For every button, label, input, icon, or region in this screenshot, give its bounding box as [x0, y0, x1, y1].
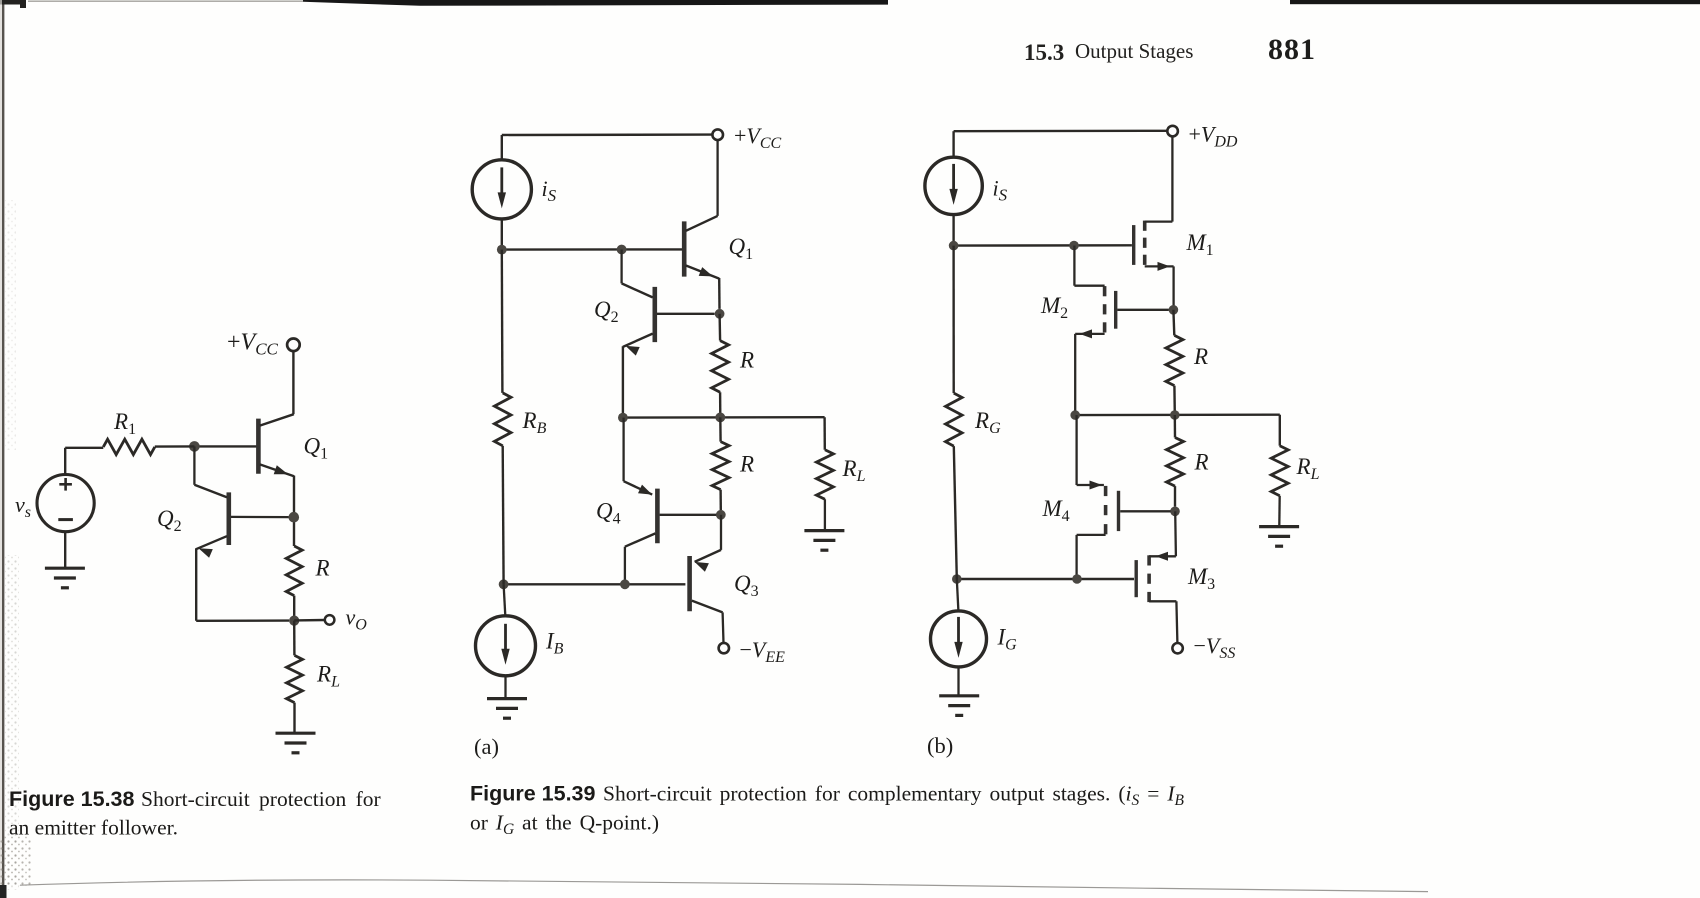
wire top rail (fig a): [502, 135, 713, 160]
ground below IB (fig a): [487, 699, 527, 719]
label iS (fig b): [993, 176, 1008, 205]
wire Q1 emitter to node (fig a): [718, 278, 721, 309]
node dot row2 right (fig b): [1170, 410, 1180, 420]
node dot row2 left (fig a): [618, 413, 628, 423]
wire node row 3 (fig b): [957, 578, 1134, 580]
resistor RL (fig b): [1271, 415, 1288, 526]
wire node row 3 (fig a): [504, 583, 686, 585]
wire node row 2 (fig a): [623, 416, 825, 419]
wire node row 2 (fig b): [1075, 414, 1280, 417]
scan artifact: left page-edge dark line: [2, 0, 4, 898]
wire vs to ground (fig 15.38): [64, 532, 66, 568]
current source IB (fig a): [476, 584, 536, 698]
node dot row2 left (fig b): [1070, 410, 1080, 420]
resistor RG (fig b): [946, 246, 963, 579]
label vs (fig 15.38): [15, 492, 31, 521]
wire to vO terminal (fig 15.38): [294, 619, 325, 622]
transistor Q1 (fig 15.38): [258, 414, 294, 476]
label R upper (fig b): [1193, 344, 1208, 369]
ground below RL (fig 15.38): [276, 733, 316, 753]
label Q4 (fig a): [596, 499, 621, 528]
transistor Q1 (fig a): [684, 140, 719, 279]
transistor Q3 (fig a): [690, 515, 724, 643]
svg-text:(b): (b): [927, 733, 953, 758]
label Q3 (fig a): [734, 571, 759, 600]
scan artifact: top black bar right segment: [1290, 0, 1700, 4]
node dot row3 left (fig a): [499, 579, 509, 589]
caption Figure 15.39: [470, 782, 1184, 839]
label R upper (fig a): [739, 348, 754, 373]
label RL (fig 15.38): [316, 662, 340, 691]
label R lower (fig b): [1194, 450, 1209, 475]
node VCC terminal (fig 15.38): [287, 339, 300, 352]
resistor R1 (fig 15.38): [65, 439, 194, 454]
wire iS to node row1 (fig b): [952, 215, 954, 246]
node dot row2 right (fig a): [715, 413, 725, 423]
label Q2 (fig a): [594, 297, 619, 326]
wire top rail (fig b): [954, 131, 1168, 157]
svg-text:R: R: [315, 556, 330, 581]
node -VEE terminal (fig a): [719, 643, 729, 653]
wire Q2 emitter down to row2 (fig a): [622, 346, 624, 417]
ground below vs (fig 15.38): [45, 568, 85, 588]
node dot M2 gate (fig b): [1169, 305, 1179, 315]
label Q1 (fig a): [729, 234, 754, 263]
node base junction dot (fig 15.38): [189, 441, 200, 452]
source vs (fig 15.38): [37, 448, 94, 532]
svg-text:15.3: 15.3: [1024, 40, 1064, 65]
transistor M4 (fig b): [1077, 415, 1171, 579]
label +VCC (fig 15.38): [227, 330, 279, 359]
label M4 (fig b): [1042, 496, 1070, 525]
node dot M2 drain row1 (fig b): [1069, 241, 1079, 251]
label -VSS (fig b): [1194, 633, 1236, 662]
svg-text:(a): (a): [474, 734, 499, 759]
node Q2 base junction dot (fig 15.38): [289, 512, 300, 523]
caption Figure 15.38: [9, 787, 381, 840]
current source IG (fig b): [931, 579, 987, 695]
current source iS (fig a): [472, 160, 531, 219]
svg-text:an emitter follower.: an emitter follower.: [9, 816, 178, 840]
label +VCC (fig a): [734, 123, 782, 152]
node -VSS terminal (fig b): [1172, 643, 1182, 653]
svg-text:Short-circuit protection for c: Short-circuit protection for complementa…: [603, 782, 1184, 810]
node dot Q2 base (fig a): [715, 309, 725, 319]
ground below RL (fig b): [1259, 527, 1299, 547]
wire Q2 emitter down and across to vO node (fig 15.38): [196, 548, 289, 620]
svg-text:R: R: [739, 452, 754, 477]
wire Q1 emitter down to node (fig 15.38): [293, 476, 295, 546]
svg-text:Figure 15.39: Figure 15.39: [470, 782, 596, 806]
label RG (fig b): [974, 408, 1001, 437]
transistor M1 (fig b): [1134, 137, 1174, 310]
label IB (fig a): [545, 629, 564, 658]
ground below IG (fig b): [939, 696, 979, 716]
header: page number 881: [1268, 33, 1316, 66]
svg-text:881: 881: [1268, 33, 1316, 66]
current source iS (fig b): [925, 157, 982, 214]
scan artifact: faint top edge line: [28, 0, 303, 2]
svg-text:Output Stages: Output Stages: [1075, 39, 1193, 63]
label RL (fig a): [842, 456, 866, 485]
transistor M3 (fig b): [1136, 511, 1177, 643]
svg-text:Figure 15.38: Figure 15.38: [9, 787, 135, 811]
header: section title Output Stages: [1075, 39, 1193, 63]
transistor Q2 (fig a): [622, 250, 715, 356]
transistor Q2 (fig 15.38): [194, 446, 288, 557]
scan artifact: bottom-left corner black mark: [0, 885, 7, 898]
ground below RL (fig a): [804, 531, 844, 551]
scan artifact: top black bar left segment: [303, 0, 888, 6]
node +VCC terminal (fig a): [712, 129, 723, 140]
header: section number 15.3: [1024, 40, 1064, 65]
node dot Q4 base (fig a): [716, 510, 726, 520]
node +VDD terminal (fig b): [1167, 126, 1178, 137]
wire node row 1 (fig b): [954, 244, 1132, 247]
node dot row3 left (fig b): [952, 574, 962, 584]
svg-text:Short-circuit protection for: Short-circuit protection for: [141, 787, 381, 811]
label IG (fig b): [997, 625, 1018, 654]
resistor RL (fig 15.38): [287, 621, 303, 733]
scan artifact: bottom page shadow line: [20, 880, 1428, 892]
resistor R upper (fig b): [1166, 310, 1183, 415]
wire VCC to Q1 collector (fig 15.38): [292, 351, 294, 414]
wire base row (fig 15.38): [194, 445, 256, 447]
label R (fig 15.38): [315, 556, 330, 581]
resistor R lower (fig a): [712, 417, 729, 510]
resistor R (fig 15.38): [286, 546, 302, 621]
node dot row3 mid (fig b): [1072, 574, 1082, 584]
label M3 (fig b): [1187, 564, 1215, 593]
node vO terminal (fig 15.38): [325, 615, 335, 625]
resistor RL (fig a): [816, 417, 833, 530]
label -VEE (fig a): [740, 637, 786, 666]
label R1 (fig 15.38): [113, 409, 136, 438]
label M2 (fig b): [1040, 293, 1068, 322]
svg-text:R: R: [739, 348, 754, 373]
node dot Q2 collector row1 (fig a): [617, 245, 627, 255]
label iS (fig a): [542, 176, 557, 205]
node dot left rail row1 (fig a): [497, 245, 507, 255]
label vO (fig 15.38): [346, 605, 368, 634]
transistor M2 (fig b): [1074, 246, 1168, 416]
label (a): [474, 734, 499, 759]
node dot M4 gate (fig b): [1170, 507, 1180, 517]
resistor R lower (fig b): [1167, 415, 1184, 507]
resistor R upper (fig a): [712, 314, 729, 418]
label RL (fig b): [1296, 454, 1320, 483]
label +VDD (fig b): [1189, 122, 1238, 151]
label M1 (fig b): [1186, 230, 1214, 259]
scan artifact: top-left corner black blob: [0, 0, 26, 8]
node vO junction dot (fig 15.38): [289, 616, 299, 626]
resistor RB (fig a): [494, 250, 511, 585]
label Q1 (fig 15.38): [304, 434, 329, 463]
svg-text:or IG at the Q-point.): or IG at the Q-point.): [470, 811, 659, 839]
label (b): [927, 733, 953, 758]
wire node row 1 (fig a): [502, 248, 682, 251]
svg-text:R: R: [1194, 450, 1209, 475]
label RB (fig a): [522, 408, 547, 437]
wire iS to node row (fig a): [501, 219, 503, 250]
svg-text:R: R: [1193, 344, 1208, 369]
node dot left rail row1 (fig b): [949, 241, 959, 251]
node dot row3 mid (fig a): [620, 579, 630, 589]
label Q2 (fig 15.38): [157, 506, 182, 535]
transistor Q4 (fig a): [624, 418, 717, 585]
label R lower (fig a): [739, 452, 754, 477]
